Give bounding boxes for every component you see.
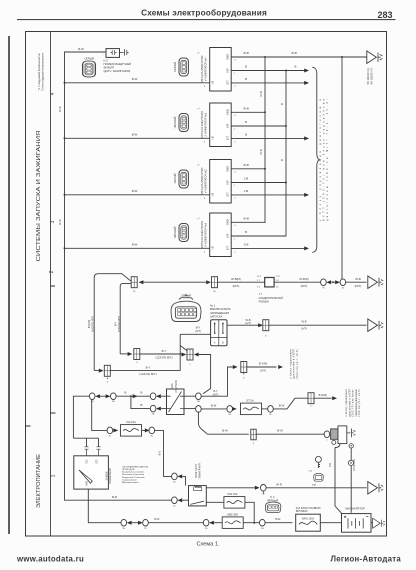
svg-text:B-Y(М): B-Y(М): [259, 361, 267, 365]
connector circles into starter relay: [150, 393, 156, 400]
svg-text:ЗАПУСКА: ЗАПУСКА: [210, 314, 223, 318]
svg-text:W-B(S): W-B(S): [299, 277, 308, 281]
svg-text:ST2: ST2: [97, 459, 99, 464]
svg-text:W-B: W-B: [355, 277, 361, 281]
wire right and down to ignition relay: [155, 430, 172, 476]
inline connector pair C1 C2: [89, 393, 95, 400]
svg-text:S-R: S-R: [328, 463, 332, 468]
svg-text:ЧЁРНЫЙ: ЧЁРНЫЙ: [173, 117, 177, 129]
svg-text:L-B: L-B: [244, 177, 249, 181]
coil4 IGF wire: [231, 235, 286, 237]
wire to ground triangle: [346, 281, 367, 283]
wire to corner and down to relay row circle: [199, 355, 211, 394]
svg-text:W-B: W-B: [302, 320, 307, 324]
relay output row to IGN fuse: [206, 487, 255, 489]
svg-text:И КОММУТАТОР №1: И КОММУТАТОР №1: [204, 222, 207, 246]
svg-text:W-R: W-R: [276, 482, 282, 486]
coil4 GND wire: [231, 221, 265, 223]
svg-text:B-Y: B-Y: [162, 349, 167, 353]
wire after fuse with jog up: [273, 398, 308, 409]
svg-text:(А/Т): (А/Т): [245, 321, 251, 325]
svg-text:СЕРЫЙ: СЕРЫЙ: [173, 174, 177, 184]
battery ground triangle: [373, 518, 385, 528]
inline connector circle pair: [321, 279, 327, 286]
svg-text:IGN 15A: IGN 15A: [228, 492, 238, 496]
coil1 IGT1 wire and arrow: [231, 82, 304, 84]
svg-text:IG2 15A: IG2 15A: [126, 420, 136, 424]
header rule: [17, 19, 396, 21]
ignition key icon: [315, 456, 321, 468]
svg-text:B: B: [245, 230, 247, 234]
ground row wire to J7: [218, 281, 265, 283]
IG2 feed riser from C1: [92, 399, 108, 430]
body ground triangle A/T: [368, 319, 383, 331]
svg-text:ST 5A: ST 5A: [246, 399, 254, 403]
body ground triangle mid: [368, 276, 383, 288]
connector D2: [233, 365, 238, 369]
section tick marks: [26, 286, 56, 426]
coil3 GND wire: [231, 168, 265, 170]
svg-text:СЕРЫЙ: СЕРЫЙ: [84, 57, 94, 61]
coil row 4: feed wire: [65, 247, 210, 249]
svg-text:B: B: [245, 77, 247, 81]
ignition coil unit 1: [179, 48, 236, 92]
small connector under key: [314, 473, 324, 481]
svg-text:B: B: [245, 133, 247, 137]
svg-text:BR=коричневый: BR=коричневый: [122, 481, 139, 484]
svg-text:к блоку управления: к блоку управления: [346, 389, 348, 417]
svg-text:AM2 30A: AM2 30A: [227, 512, 238, 516]
svg-text:B-Y: B-Y: [196, 326, 201, 330]
svg-text:(А/Т): (А/Т): [213, 392, 219, 396]
wire to relay with junction: [116, 395, 150, 397]
body ground triangle top right: [367, 51, 382, 63]
svg-text:управления двигателем: управления двигателем: [356, 389, 358, 416]
diagram frame: [26, 32, 387, 537]
svg-text:283: 283: [377, 10, 392, 20]
inline connector on A/T row: [258, 323, 263, 327]
svg-text:ЗАЖИГАНИЯ: ЗАЖИГАНИЯ: [199, 463, 202, 478]
branch wire to park/neutral switch: [180, 333, 210, 335]
starter assembly: [324, 431, 330, 438]
coil row 1: feed wire: [65, 82, 210, 84]
svg-text:MAIN 100A: MAIN 100A: [302, 517, 315, 520]
svg-text:W-B: W-B: [259, 91, 263, 97]
svg-text:B-W: B-W: [58, 106, 62, 112]
svg-text:СОЕДИНИТЕЛЬНЫЙ: СОЕДИНИТЕЛЬНЫЙ: [259, 297, 283, 300]
svg-text:W-B: W-B: [243, 217, 249, 221]
svg-text:СТАРТЕРА: СТАРТЕРА: [175, 380, 178, 393]
svg-text:B-W: B-W: [279, 403, 285, 407]
svg-text:*2 без подушки безопасности: *2 без подушки безопасности: [41, 53, 45, 91]
ground row wire left span: [143, 281, 207, 283]
svg-text:СЕРЫЙ: СЕРЫЙ: [173, 62, 177, 72]
svg-text:2C: 2C: [109, 435, 112, 437]
svg-text:B-R: B-R: [112, 495, 117, 499]
svg-text:W-B: W-B: [243, 51, 249, 55]
svg-text:B-W: B-W: [132, 77, 138, 81]
coil row 2: feed wire: [65, 137, 210, 139]
svg-text:ЭЛЕКТРОПИТАНИЕ: ЭЛЕКТРОПИТАНИЕ: [36, 453, 42, 508]
connector A on ground row: [131, 277, 137, 288]
svg-text:B-W: B-W: [277, 429, 283, 433]
svg-text:(А/Т): (А/Т): [260, 369, 266, 373]
svg-text:ЗАПРЕЩЕНИЯ: ЗАПРЕЩЕНИЯ: [210, 311, 229, 315]
svg-text:СТАРТЕР: СТАРТЕР: [352, 459, 356, 471]
svg-text:W-B: W-B: [259, 149, 263, 155]
wire color legend table: [122, 465, 149, 484]
svg-text:(1ZZ-FE М/Т): (1ZZ-FE М/Т): [117, 316, 121, 332]
svg-text:W-B: W-B: [243, 107, 249, 111]
main B-W bus wire left: [64, 52, 66, 500]
svg-text:2D: 2D: [173, 482, 176, 484]
svg-text:ОБОЗНАЧЕНИЕ ЦВЕТОВ: ОБОЗНАЧЕНИЕ ЦВЕТОВ: [122, 465, 149, 468]
ST row corner from ignition switch riser: [73, 396, 89, 438]
riser joining neutral switch branch: [180, 334, 187, 370]
A/T ground row from switch: [227, 324, 259, 326]
ignition main relay box: [189, 486, 207, 506]
svg-text:B-W: B-W: [211, 403, 217, 407]
svg-text:W-B(М): W-B(М): [231, 277, 241, 281]
starter feed connector: [251, 429, 256, 440]
svg-text:И КОММУТАТОР №4: И КОММУТАТОР №4: [204, 57, 207, 81]
svg-text:ВСТАВОК: ВСТАВОК: [296, 509, 308, 513]
svg-text:B-Y: B-Y: [146, 365, 151, 369]
coil branch down: [131, 396, 150, 408]
svg-text:(2AZ-FE) (3-7, 14-5): (2AZ-FE) (3-7, 14-5): [296, 349, 299, 378]
coil2 GND wire: [231, 111, 265, 113]
svg-text:2C: 2C: [173, 505, 176, 507]
brace to engine ECU: [313, 67, 320, 252]
inner corner path: [120, 283, 131, 354]
svg-text:РЕЛЕ: РЕЛЕ: [171, 383, 174, 390]
svg-text:L-B: L-B: [244, 189, 249, 193]
svg-text:2: 2: [49, 270, 55, 273]
svg-text:(1ZZ-FE М/Т): (1ZZ-FE М/Т): [155, 356, 172, 360]
connector C: [104, 365, 110, 376]
svg-text:W-B: W-B: [243, 163, 249, 167]
svg-text:(1AZ-FE М/Т): (1AZ-FE М/Т): [139, 372, 156, 376]
starter relay ST box: [167, 389, 185, 415]
svg-text:*1 с подушкой безопасности: *1 с подушкой безопасности: [37, 53, 41, 90]
svg-text:S-B: S-B: [244, 243, 249, 247]
svg-text:двигателем и АКПП: двигателем и АКПП: [348, 389, 351, 416]
svg-text:АККУМУЛЯТОР: АККУМУЛЯТОР: [345, 506, 365, 510]
svg-text:B: B: [141, 403, 143, 407]
starter solenoid lower terminal: [332, 440, 336, 444]
svg-text:B-Y: B-Y: [114, 322, 118, 327]
svg-text:Схема 1.: Схема 1.: [196, 542, 220, 548]
svg-text:B: B: [245, 65, 247, 69]
svg-text:ФИЛЬТР: ФИЛЬТР: [104, 65, 115, 69]
connector designator ticks: [91, 288, 344, 530]
coil3 IGT3 wire and arrow: [231, 194, 304, 196]
svg-text:B: B: [141, 391, 143, 395]
coil3 IGF wire: [231, 182, 286, 184]
svg-text:ВЫКЛЮЧАТЕЛЬ: ВЫКЛЮЧАТЕЛЬ: [210, 307, 231, 311]
svg-text:(2AZ-FE) или блоку: (2AZ-FE) или блоку: [352, 389, 355, 417]
svg-text:Легион-Автодата: Легион-Автодата: [330, 555, 401, 564]
connector D pair with arrows: [182, 353, 187, 357]
svg-text:двигателем (1AZ-FE М/Т) (3-1,: двигателем (1AZ-FE М/Т) (3-1, 14-3): [326, 99, 329, 221]
book spine line: [8, 36, 10, 534]
svg-text:B: B: [245, 120, 247, 124]
svg-text:B-R: B-R: [155, 517, 160, 521]
svg-text:1D: 1D: [133, 291, 136, 293]
body ground style output triangle lower: [368, 482, 383, 494]
svg-text:ЗАЖИГАНИЯ: ЗАЖИГАНИЯ: [108, 468, 112, 484]
svg-text:№ 1: № 1: [210, 304, 216, 308]
wire up to A/T ECU connector: [201, 367, 233, 396]
starter battery cable: [350, 448, 352, 513]
ground row wire after J7: [274, 281, 321, 283]
svg-text:B=черный L=голубой: B=черный L=голубой: [122, 471, 144, 474]
svg-text:B: B: [280, 159, 284, 161]
coil row 3: feed wire: [65, 194, 210, 196]
svg-text:2J: 2J: [262, 493, 264, 495]
svg-text:к А: к А: [309, 470, 313, 473]
junction connector J7: [265, 278, 274, 287]
svg-text:W=белый G=зеленый: W=белый G=зеленый: [122, 473, 145, 476]
svg-text:двигателем и АКПП: двигателем и АКПП: [293, 349, 296, 378]
connector on upper M/T row: [134, 349, 140, 360]
svg-text:(А/Т): (А/Т): [195, 329, 201, 333]
svg-text:к блоку управления: к блоку управления: [290, 349, 292, 379]
svg-text:(1AZ-FE М/Т): (1AZ-FE М/Т): [90, 316, 94, 332]
lower M/T row from outer path: [94, 369, 99, 371]
svg-text:ЧЁРНЫЙ: ЧЁРНЫЙ: [173, 227, 177, 239]
ignition coil unit 4: [179, 213, 236, 257]
svg-text:(М/Т): (М/Т): [233, 284, 240, 288]
svg-text:B-R(М): B-R(М): [319, 393, 327, 397]
svg-text:2G: 2G: [205, 528, 208, 530]
svg-text:(1AZ-FE) (3-7, 14-5): (1AZ-FE) (3-7, 14-5): [358, 389, 361, 416]
svg-text:O=оранжевый: O=оранжевый: [122, 478, 137, 481]
fuse ST 5A: [241, 403, 262, 415]
svg-text:BR 13(2AZ-FE): BR 13(2AZ-FE): [370, 67, 373, 84]
coil2 IGT2 wire and arrow: [231, 137, 304, 139]
fuse AM2 30A: [222, 517, 243, 529]
svg-text:-: -: [103, 53, 104, 57]
svg-text:30А: 30А: [312, 484, 316, 487]
svg-text:СИСТЕМЫ ЗАПУСКА И ЗАЖИГАНИЯ: СИСТЕМЫ ЗАПУСКА И ЗАЖИГАНИЯ: [36, 130, 42, 261]
svg-text:РАЗЪЕМ: РАЗЪЕМ: [259, 300, 269, 303]
svg-text:B-W: B-W: [132, 133, 138, 137]
ground bus V1: [264, 57, 266, 223]
svg-text:B-W: B-W: [78, 47, 84, 51]
arrow to ECU text TB1: [278, 365, 283, 369]
ignition coil unit 3: [179, 160, 236, 204]
svg-text:ЗАМОК: ЗАМОК: [104, 471, 108, 480]
bus corner row into relay: [65, 499, 172, 501]
connector F4 black below: [262, 491, 264, 495]
ST fuse feed: [201, 408, 227, 410]
svg-text:B-W: B-W: [132, 243, 138, 247]
coil2 IGF wire: [231, 125, 286, 127]
outer corner path to ground row: [94, 274, 131, 371]
M/T row upper wire from inner path: [120, 353, 128, 355]
svg-text:(М/Т): (М/Т): [355, 284, 362, 288]
ignition coil unit 2: [179, 103, 236, 147]
svg-text:B-R(М): B-R(М): [87, 320, 91, 328]
frame column line: [50, 32, 52, 537]
fuse IGN 15A on lower branch: [206, 501, 224, 503]
svg-text:IG: IG: [342, 288, 345, 290]
svg-text:ПОМЕХОЗАЩИТНЫЙ: ПОМЕХОЗАЩИТНЫЙ: [104, 62, 132, 66]
noise filter N2 box: [106, 49, 120, 58]
svg-text:W-B: W-B: [291, 51, 297, 55]
branch down to starter: [198, 412, 248, 435]
svg-text:(ДАТЧ. ЗАЖИГАНИЯ): (ДАТЧ. ЗАЖИГАНИЯ): [104, 69, 131, 73]
filter output capacitor to ground: [120, 49, 129, 55]
fuse IG2 15A: [121, 425, 142, 437]
svg-text:B-W: B-W: [132, 189, 138, 193]
coil4 IGT4 wire and arrow: [231, 247, 304, 249]
AM2 bottom feed row: [88, 489, 121, 523]
svg-text:B-W: B-W: [222, 429, 228, 433]
svg-text:И КОММУТАТОР №2: И КОММУТАТОР №2: [204, 169, 207, 193]
svg-text:(М/Т): (М/Т): [301, 284, 308, 288]
ignition switch assembly: [73, 438, 98, 447]
vertical wire W-B to mid ground row: [341, 57, 343, 282]
svg-text:И КОММУТАТОР №3: И КОММУТАТОР №3: [204, 112, 207, 136]
svg-text:B: B: [295, 65, 297, 69]
svg-text:R=красный Y=желтый: R=красный Y=желтый: [122, 476, 145, 479]
svg-text:B: B: [280, 103, 284, 105]
wire to noise filter: [65, 51, 107, 53]
svg-text:B: B: [125, 391, 127, 395]
svg-text:AM2: AM2: [85, 480, 88, 485]
svg-text:B-R: B-R: [276, 517, 281, 521]
svg-text:4: 4: [50, 92, 56, 95]
svg-text:www.autodata.ru: www.autodata.ru: [16, 555, 84, 564]
relay outputs: [184, 395, 196, 397]
ignition switch box: [74, 456, 109, 489]
svg-text:3: 3: [50, 220, 56, 223]
svg-text:(А/Т): (А/Т): [301, 327, 307, 331]
svg-text:B-W: B-W: [58, 219, 62, 225]
svg-text:B-O: B-O: [157, 451, 161, 456]
connector on jog: [308, 393, 314, 404]
svg-text:N 2: N 2: [104, 59, 109, 63]
IGF bus V2: [285, 71, 287, 237]
svg-text:Схемы электрооборудования: Схемы электрооборудования: [141, 7, 267, 17]
svg-text:1: 1: [50, 474, 56, 477]
connector B: [206, 280, 211, 284]
top W-B ground wire to body ground: [231, 56, 366, 58]
park/neutral position switch No.1 box: [211, 320, 227, 346]
coil1 IGF wire and arrow to ECU: [231, 70, 304, 72]
